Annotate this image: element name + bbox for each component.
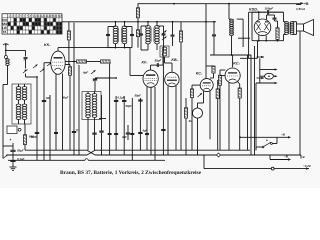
- tap line2: [260, 75, 265, 77]
- wire x116: [115, 96, 117, 100]
- wire choke feed: [228, 4, 230, 19]
- capacitor C14b: [138, 99, 142, 101]
- resistor R8: [190, 89, 193, 98]
- wire anode line: [58, 47, 130, 49]
- wire osc link y78: [95, 77, 116, 79]
- resistor R2b: [101, 60, 111, 63]
- IFT2 coil La: [148, 26, 150, 45]
- output transformer T1 primary: [287, 22, 289, 35]
- band filter shield box: [12, 84, 31, 124]
- wire U4 right lead: [209, 91, 211, 140]
- wire x74: [73, 23, 75, 62]
- switch contact S8: [162, 31, 167, 35]
- wire R14 bot: [277, 39, 279, 40]
- svg-text:KK₂: KK₂: [44, 43, 51, 47]
- wire R7 top: [180, 22, 182, 31]
- output transformer T1 secondary: [292, 22, 294, 35]
- wire x172 cap: [172, 22, 174, 35]
- capacitor C19: [145, 132, 149, 134]
- resistor R4: [67, 31, 70, 40]
- resistor R13: [238, 88, 241, 98]
- wire x214: [213, 22, 215, 35]
- oscillator coil L7: [95, 94, 97, 118]
- svg-text:4µF: 4µF: [82, 71, 88, 75]
- IFT2 top leads: [147, 22, 149, 26]
- svg-text:50µF: 50µF: [17, 149, 24, 153]
- arrow +B terminal: [296, 2, 304, 4]
- wire R5 feed: [137, 4, 139, 8]
- choke L9: [232, 19, 234, 35]
- wire C2 to ground: [12, 162, 14, 167]
- svg-text:4µF: 4µF: [142, 129, 148, 133]
- IFT2 bottom leads: [147, 44, 149, 50]
- antenna: [3, 44, 9, 45]
- capacitor C5: [42, 99, 46, 101]
- svg-text:100pF: 100pF: [265, 7, 274, 11]
- wire trimmer to switch: [25, 63, 27, 69]
- capacitor C2 0,1uF: [10, 159, 15, 161]
- switch S10: [262, 146, 264, 148]
- resistor R3: [68, 67, 71, 75]
- wire R2b out: [109, 62, 111, 65]
- bus crossover: [87, 150, 95, 155]
- IFT1 coil Lb: [125, 26, 127, 44]
- capacitor C6 50pF: [156, 63, 158, 67]
- antenna coil L1: [8, 59, 10, 66]
- svg-text:KF₂: KF₂: [142, 61, 149, 65]
- svg-text:a: a: [266, 138, 268, 142]
- IFT1 cap right: [131, 27, 133, 35]
- wire antenna branch: [5, 50, 7, 55]
- wire speaker bot: [292, 33, 297, 35]
- wire U1 anode up: [57, 48, 59, 52]
- wire R14 top: [277, 21, 279, 28]
- bus B2 right end: [300, 155, 302, 159]
- resistor R7: [179, 31, 182, 42]
- band filter coil L4: [19, 104, 21, 120]
- resistor R9: [184, 108, 187, 118]
- wire speaker top: [292, 21, 297, 23]
- capacitor C10: [35, 131, 39, 133]
- wire bottom +4 line: [204, 168, 309, 170]
- capacitor C12: [114, 99, 118, 101]
- tube U1 KC1: [51, 51, 65, 74]
- wire +B top bus: [138, 3, 303, 5]
- trimmer capacitor C3: [93, 78, 97, 80]
- wire y55 link: [210, 54, 251, 56]
- wire U1 bottom leads: [55, 74, 57, 150]
- IFT1 cap left: [107, 27, 109, 35]
- svg-text:50pF: 50pF: [62, 96, 69, 100]
- capacitor C11: [72, 130, 76, 132]
- wire y58 link: [240, 57, 258, 59]
- wire x163.4: [162, 57, 164, 155]
- IFT1 coil La: [116, 26, 118, 44]
- ground: [10, 166, 17, 168]
- capacitor C13b: [126, 132, 130, 134]
- IFT2 core: [150, 28, 152, 43]
- wire x79 down: [78, 65, 80, 155]
- svg-text:−B: −B: [281, 133, 286, 137]
- capacitor C8 100pF: [267, 10, 269, 14]
- svg-text:+B: +B: [304, 2, 309, 6]
- wire U5 bottom: [228, 83, 230, 151]
- resistor R11: [216, 89, 219, 99]
- wire U4 grid left: [192, 84, 200, 86]
- wire osc right: [94, 120, 96, 134]
- wire elcap feed: [259, 58, 261, 69]
- tube U3 KB2: [165, 72, 179, 86]
- wire bundle a: [247, 55, 249, 150]
- switch contact S9: [198, 93, 203, 97]
- wire x124: [123, 96, 125, 100]
- resistor R1 800: [23, 135, 26, 145]
- switch contact S5: [3, 155, 8, 159]
- wire R2 to node: [74, 61, 77, 63]
- wire U6 grid/cath leads: [258, 35, 260, 40]
- wire U2 anode up: [150, 65, 152, 70]
- band filter coil L2: [19, 87, 21, 101]
- oscillator shield box: [82, 92, 101, 120]
- wire x132.3: [131, 98, 133, 160]
- lamp/jack J1: [193, 108, 203, 118]
- osc coil leads: [87, 92, 89, 94]
- wire C1-C2: [12, 152, 14, 160]
- wire bundle b: [250, 55, 252, 155]
- wire x69 mid: [68, 40, 70, 65]
- wire anode top line: [252, 11, 267, 13]
- wire x128: [127, 125, 129, 132]
- svg-text:50pF: 50pF: [155, 59, 162, 63]
- svg-text:B: B: [303, 155, 305, 159]
- svg-text:KB₂: KB₂: [171, 58, 178, 62]
- wire anode top line: [252, 11, 284, 13]
- wire R6 down: [137, 37, 139, 48]
- band-switch contact table: [2, 14, 62, 34]
- wire x257.5: [257, 41, 259, 59]
- switch contact S3: [40, 69, 45, 73]
- wire antenna to trimmer: [6, 49, 26, 51]
- capacitor C15: [161, 128, 165, 130]
- capacitor C14: [138, 131, 142, 133]
- svg-text:50pF: 50pF: [126, 104, 133, 108]
- wire switch bus: [26, 76, 38, 78]
- resistor R12: [218, 75, 221, 85]
- wire x50: [49, 95, 51, 160]
- connector G: [18, 128, 21, 131]
- wire trimmer down: [94, 81, 96, 92]
- tube U2 KF2: [143, 70, 158, 87]
- IFT2 cap right: [163, 26, 165, 34]
- svg-text:KC₃: KC₃: [233, 62, 240, 66]
- wire block cap feed: [12, 143, 14, 150]
- wire x140.4: [139, 98, 141, 150]
- T1 core: [288, 23, 290, 34]
- trimmer capacitor: [24, 57, 28, 59]
- wire y40.7 bus: [252, 40, 284, 42]
- svg-text:0,1: 0,1: [76, 128, 80, 132]
- wire bundle c: [254, 46, 256, 155]
- wire x138 below rail: [137, 22, 139, 30]
- arrow tap2: [257, 77, 265, 79]
- svg-text:+: +: [10, 138, 12, 142]
- capacitor C1 50uF: [10, 149, 15, 151]
- wire L1 down: [7, 66, 9, 85]
- loudspeaker: [297, 24, 304, 31]
- arrow tap1: [257, 56, 265, 58]
- capacitor C18: [130, 132, 134, 134]
- switch contact S6: [91, 70, 96, 74]
- wire R5 to rail: [137, 18, 139, 22]
- wire x109.6: [109, 64, 111, 155]
- svg-text:Braun, BS 37, Batterie, 1 Vork: Braun, BS 37, Batterie, 1 Vorkreis, 2 Zw…: [60, 170, 202, 176]
- IFT1 bottom leads: [115, 44, 117, 48]
- tube U5 KC3: [225, 68, 240, 83]
- switch contact S4: [47, 63, 52, 67]
- IFT1 top leads: [115, 22, 117, 26]
- wire U4 bottom: [203, 91, 205, 103]
- capacitor C9: [274, 15, 276, 18]
- switch contact S2: [33, 65, 38, 69]
- IFT1 core: [118, 28, 120, 42]
- capacitor C4: [92, 132, 96, 134]
- resistor R6: [136, 30, 139, 37]
- switch contact S7: [162, 37, 167, 41]
- battery block: [7, 126, 17, 134]
- oscillator coil L6: [88, 94, 90, 118]
- IFT2 cap left: [140, 26, 142, 34]
- wire U4 anode: [205, 4, 207, 79]
- resistor R14: [276, 28, 279, 40]
- capacitor C17: [114, 132, 118, 134]
- band filter coil L5: [25, 104, 27, 120]
- svg-text:18: 18: [59, 14, 62, 18]
- wire choke to U5: [231, 36, 233, 55]
- wire speaker down: [299, 31, 301, 155]
- wire R7 down: [180, 42, 182, 150]
- svg-text:1,5mA: 1,5mA: [296, 7, 305, 11]
- svg-text:5000: 5000: [31, 135, 37, 139]
- resistor R5: [136, 8, 139, 18]
- svg-text:0,1µF: 0,1µF: [118, 96, 125, 100]
- tap line1: [260, 69, 276, 71]
- resistor R2: [77, 60, 87, 63]
- wire x69 upper: [68, 22, 70, 31]
- svg-text:100: 100: [46, 96, 51, 100]
- electrolytic C7: [265, 73, 274, 79]
- arrow -B low: [270, 159, 289, 161]
- bus B2: [8, 154, 87, 156]
- capacitor C16: [108, 132, 112, 134]
- arrow -B top: [240, 136, 289, 138]
- wire left col: [248, 12, 250, 58]
- wire link y118: [99, 118, 106, 120]
- detector coil L8: [165, 47, 167, 56]
- wire R9: [185, 98, 187, 108]
- wire U3 bottom leads: [167, 86, 169, 155]
- T1 wiring: [283, 12, 285, 22]
- choke bracket: [237, 18, 243, 20]
- wire x101.5 cap: [101, 95, 103, 131]
- wire U5 left lead: [220, 75, 225, 77]
- IFT2 coil Lb: [157, 26, 159, 45]
- detector coil box: [160, 46, 169, 57]
- tap line3: [256, 82, 276, 84]
- wire R8 down: [191, 98, 193, 151]
- svg-text:KC₁: KC₁: [196, 72, 203, 76]
- tube U4 KC1: [200, 79, 213, 92]
- tube U6 KDD1: [254, 19, 271, 36]
- wire filter to resistor: [24, 124, 26, 135]
- wire x69 low: [69, 75, 71, 150]
- wire R13: [237, 81, 240, 84]
- capacitor C13: [122, 99, 126, 101]
- wire U1 grid leads: [65, 61, 74, 63]
- band filter leads: [18, 84, 20, 87]
- wire x252: [251, 12, 253, 41]
- wire HT rail: [62, 21, 216, 23]
- wire R11: [217, 80, 219, 89]
- wire R10 wiring: [206, 65, 214, 67]
- wire U1 cath: [44, 62, 51, 64]
- wire S10 feed: [255, 147, 257, 150]
- capacitor C20: [54, 131, 58, 133]
- resistor R10: [212, 66, 215, 73]
- svg-text:KDD₁: KDD₁: [249, 8, 259, 12]
- wire det to U3: [164, 57, 166, 63]
- wire U6 anode leads: [258, 12, 260, 19]
- wire osc left: [87, 120, 89, 151]
- svg-text:4µF: 4µF: [121, 135, 127, 139]
- switch contact S1: [23, 70, 28, 74]
- wire R1 down: [24, 145, 26, 151]
- wire J1 down: [197, 118, 199, 155]
- wire U2 bottom leads: [146, 87, 148, 150]
- bus B3: [8, 159, 85, 161]
- band filter coil L3: [25, 87, 27, 101]
- wire R12: [219, 70, 221, 75]
- bus B1: [25, 149, 87, 151]
- svg-text:−4,2V: −4,2V: [303, 164, 312, 168]
- svg-text:50pF: 50pF: [135, 94, 142, 98]
- arrow +4V: [306, 167, 309, 169]
